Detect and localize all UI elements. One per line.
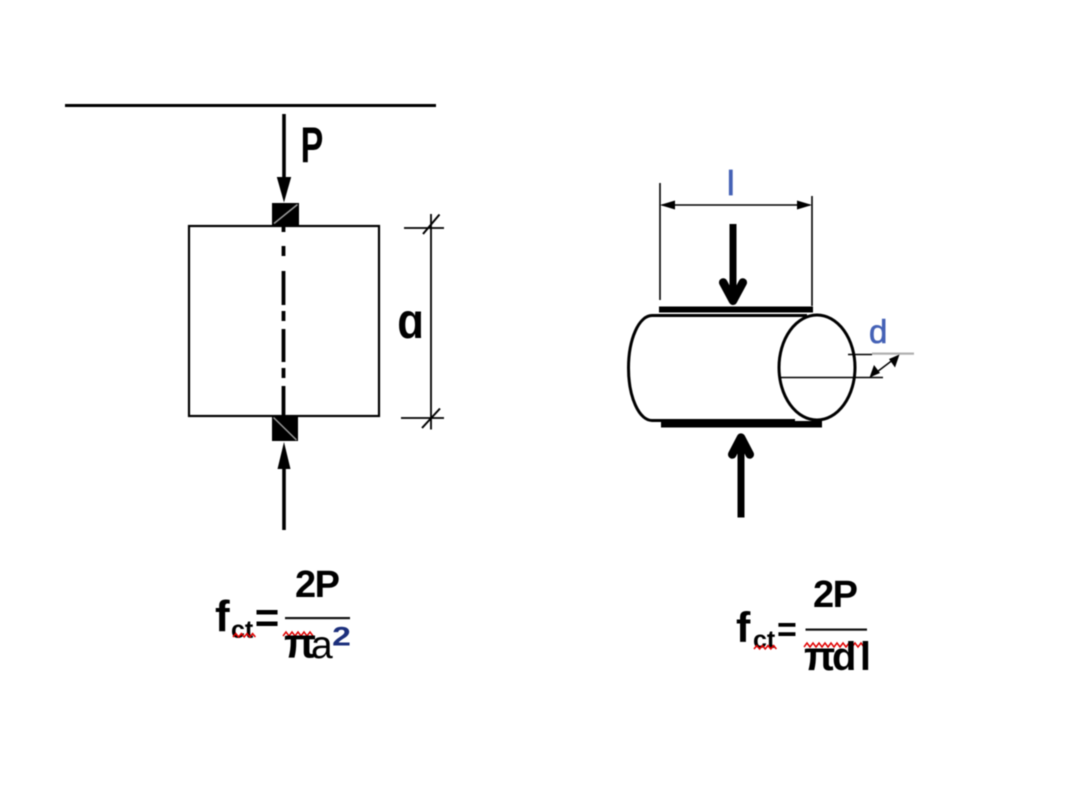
platen line (top support) [65, 104, 436, 107]
formula-left fraction bar [285, 617, 350, 619]
applied load arrow (down) shaft [730, 224, 737, 294]
applied load arrow (down) head [723, 283, 743, 301]
formula-right fraction bar [806, 629, 868, 631]
svg-text:f: f [736, 604, 751, 652]
dimension a: vertical dim line [430, 214, 432, 430]
reaction arrow (up) head [732, 438, 750, 455]
svg-text:P: P [301, 118, 324, 174]
svg-text:2: 2 [332, 622, 351, 652]
d lower leader line [780, 377, 883, 379]
bottom bearing strip hatch [274, 418, 297, 441]
dimension l: right arrowhead [797, 201, 812, 210]
top bearing strip [272, 203, 299, 225]
splitting axis dash-dot line [282, 227, 286, 417]
svg-text:l: l [727, 165, 735, 203]
d upper leader line gray part [872, 353, 914, 355]
svg-text:ct: ct [753, 626, 776, 654]
cylinder right end ellipse [779, 315, 855, 420]
dimension l: right extension line [811, 196, 813, 306]
dimension a: bottom extension line [401, 417, 444, 419]
svg-text:a: a [311, 624, 333, 667]
svg-text:2P: 2P [813, 574, 858, 616]
svg-text:π: π [804, 633, 835, 679]
svg-text:=: = [777, 611, 797, 649]
bottom bearing strip [272, 416, 298, 441]
dimension l: left arrowhead [660, 201, 675, 210]
formula-left red zigzag over pi [283, 632, 313, 636]
d diagonal double arrow line [871, 356, 898, 377]
reaction arrow (up) shaft [738, 447, 745, 518]
reaction arrow head [278, 442, 291, 469]
dimension a: top extension line [404, 227, 444, 229]
dimension l: left extension line [659, 183, 661, 300]
top bearing strip hatch [274, 205, 298, 224]
d upper leader line black part [848, 354, 872, 356]
formula-left ct red squiggle [233, 634, 255, 637]
dimension a: top tick [423, 215, 440, 235]
cube outline [189, 226, 379, 416]
svg-text:dl: dl [832, 635, 875, 679]
cylinder body outline [629, 316, 808, 421]
svg-text:=: = [255, 594, 280, 641]
svg-text:f: f [215, 592, 230, 641]
svg-text:ɑ: ɑ [397, 292, 424, 348]
svg-text:2P: 2P [295, 564, 340, 606]
svg-text:d: d [869, 313, 887, 350]
d diagonal arrowhead upper [889, 355, 900, 368]
bottom loading strip [661, 421, 822, 428]
load arrow P shaft [282, 114, 286, 182]
svg-text:ct: ct [231, 616, 254, 644]
load arrow P head [277, 177, 291, 203]
top loading strip [659, 307, 813, 313]
formula-right ct red squiggle [754, 646, 776, 649]
formula-right red zigzag over pi d l [804, 643, 864, 647]
dimension l: dim line [662, 204, 810, 206]
d diagonal arrowhead lower [870, 365, 881, 378]
reaction arrow shaft [282, 460, 286, 530]
dimension a: bottom tick [422, 409, 440, 429]
